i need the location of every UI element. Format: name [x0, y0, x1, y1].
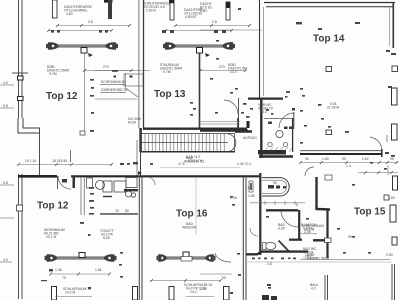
- svg-text:2.52: 2.52: [362, 157, 369, 161]
- svg-text:Top 14: Top 14: [313, 34, 345, 45]
- svg-text:14.2 M: 14.2 M: [65, 291, 76, 295]
- svg-text:70: 70: [62, 276, 66, 280]
- svg-text:Top 12: Top 12: [37, 201, 69, 212]
- svg-text:4.0: 4.0: [3, 258, 8, 262]
- svg-text:1.80: 1.80: [248, 194, 255, 198]
- svg-text:2.13: 2.13: [260, 110, 267, 114]
- svg-text:4.2: 4.2: [311, 287, 316, 291]
- svg-text:2.8: 2.8: [267, 262, 272, 266]
- svg-text:Top 15: Top 15: [354, 207, 386, 218]
- svg-text:WASCHK 5.1: WASCHK 5.1: [184, 160, 205, 164]
- svg-text:80: 80: [125, 209, 129, 213]
- svg-text:SCHRANKW 60: SCHRANKW 60: [101, 80, 126, 84]
- svg-text:1.80: 1.80: [245, 186, 252, 190]
- svg-text:19: 19: [115, 209, 119, 213]
- svg-text:2.80 B: 2.80 B: [146, 9, 157, 13]
- svg-text:KLIM: KLIM: [128, 121, 136, 125]
- svg-text:5.8: 5.8: [3, 181, 8, 185]
- svg-text:95: 95: [390, 157, 394, 161]
- svg-text:Top 13: Top 13: [154, 89, 186, 100]
- svg-text:23.1 M: 23.1 M: [46, 235, 57, 239]
- svg-text:1.38: 1.38: [55, 268, 62, 272]
- svg-text:10 1.10: 10 1.10: [25, 159, 36, 163]
- svg-text:9.7M: 9.7M: [163, 70, 171, 74]
- svg-text:90: 90: [222, 276, 226, 280]
- svg-text:2.40: 2.40: [200, 287, 207, 291]
- svg-text:9.7M: 9.7M: [49, 72, 57, 76]
- svg-text:270: 270: [103, 65, 109, 69]
- svg-text:1.4: 1.4: [346, 164, 351, 168]
- svg-text:4.5: 4.5: [3, 81, 8, 85]
- svg-text:AUFZUG: AUFZUG: [243, 136, 257, 140]
- svg-text:WASCHK: WASCHK: [182, 226, 197, 230]
- svg-text:21.09 M: 21.09 M: [327, 106, 339, 110]
- svg-text:90: 90: [273, 181, 277, 185]
- svg-text:90: 90: [342, 157, 346, 161]
- svg-text:23.0: 23.0: [230, 70, 237, 74]
- svg-text:90: 90: [305, 157, 309, 161]
- svg-text:2.40 +0.1: 2.40 +0.1: [237, 162, 251, 166]
- svg-text:2.8: 2.8: [212, 20, 217, 24]
- svg-text:4.80: 4.80: [66, 12, 73, 16]
- svg-text:4.05: 4.05: [278, 227, 285, 231]
- svg-text:2.50: 2.50: [386, 253, 393, 257]
- svg-text:14.2: 14.2: [190, 290, 197, 294]
- svg-text:5.8: 5.8: [3, 104, 8, 108]
- svg-text:270: 270: [219, 65, 225, 69]
- svg-text:DACHTL 5MM: DACHTL 5MM: [307, 257, 329, 261]
- svg-text:Top 16: Top 16: [176, 209, 208, 220]
- svg-text:GARDEROBE 55: GARDEROBE 55: [101, 88, 127, 92]
- svg-text:10.2 M: 10.2 M: [304, 228, 315, 232]
- svg-text:2.80: 2.80: [200, 9, 207, 13]
- svg-text:1.80: 1.80: [322, 157, 329, 161]
- svg-text:2.05: 2.05: [230, 196, 237, 200]
- svg-text:Top 12: Top 12: [46, 91, 78, 102]
- svg-text:2.50: 2.50: [388, 196, 395, 200]
- svg-text:8.2K: 8.2K: [103, 236, 111, 240]
- svg-text:90: 90: [348, 235, 352, 239]
- svg-text:2.8: 2.8: [88, 20, 93, 24]
- svg-text:18 243.50: 18 243.50: [52, 159, 67, 163]
- svg-text:4.80 BT: 4.80 BT: [185, 15, 197, 19]
- svg-text:1.81: 1.81: [95, 268, 102, 272]
- svg-text:5: 5: [296, 203, 298, 207]
